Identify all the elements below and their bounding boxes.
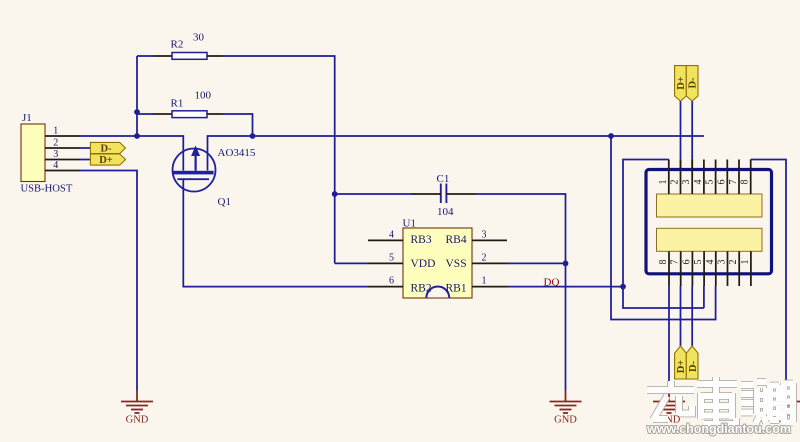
- junction VBUS/J1.1: [134, 133, 140, 139]
- svg-text:3: 3: [681, 180, 692, 185]
- wire J1.1 to VBUS node: [80, 135, 137, 137]
- svg-text:AO3415: AO3415: [218, 147, 256, 159]
- wire drain rail branch x611: [611, 136, 716, 320]
- wire Q1 drain rail to connector pin4 top: [208, 136, 704, 171]
- svg-text:RB3: RB3: [411, 234, 432, 246]
- R1 pin 1: [153, 113, 172, 115]
- resistor R2: [172, 53, 207, 60]
- port D- (left): [90, 142, 125, 154]
- wire bottom pin5 riser: [703, 286, 705, 308]
- svg-text:100: 100: [195, 90, 212, 102]
- svg-text:D+: D+: [99, 155, 113, 166]
- wire J1.3 to D+ port: [80, 159, 90, 161]
- svg-text:D-: D-: [100, 144, 112, 155]
- ground symbol center: [550, 391, 582, 414]
- svg-text:4: 4: [53, 160, 58, 171]
- svg-text:RB2: RB2: [411, 283, 432, 295]
- svg-text:2: 2: [482, 252, 487, 263]
- wire R2 left: [137, 55, 153, 57]
- svg-text:3: 3: [717, 260, 728, 265]
- svg-text:1: 1: [53, 126, 58, 137]
- svg-text:4: 4: [705, 260, 716, 265]
- wire R2 right to VDD column: [223, 56, 335, 263]
- svg-text:8: 8: [658, 260, 669, 265]
- svg-text:2: 2: [670, 180, 681, 185]
- wire bottom flag D-: [691, 286, 693, 346]
- connector top pin numbers: [658, 180, 751, 185]
- connector CON8 thick body: [646, 170, 772, 274]
- R2 pin 1: [153, 55, 172, 57]
- wire VDD pin5: [335, 262, 368, 264]
- U1 pin 6: [368, 286, 403, 288]
- U1 pin 1: [472, 286, 507, 288]
- J1 pin 3: [45, 159, 80, 161]
- svg-text:4: 4: [389, 229, 394, 240]
- junction DQ/x623: [620, 284, 626, 290]
- C1 pin 1: [411, 193, 441, 195]
- junction VSS/C1: [563, 261, 569, 267]
- svg-text:6: 6: [681, 260, 692, 265]
- wire VBUS column x137: [136, 56, 138, 136]
- svg-text:1: 1: [482, 276, 487, 287]
- svg-text:104: 104: [437, 206, 454, 218]
- U1 pin 2: [472, 262, 507, 264]
- svg-text:GND: GND: [126, 415, 149, 426]
- connector bottom pin numbers: [658, 260, 751, 265]
- svg-text:VDD: VDD: [411, 258, 436, 270]
- U1 pin 3: [472, 239, 507, 241]
- wire VBUS rail to Q1 source: [137, 136, 183, 171]
- wire J1.4 to GND column: [80, 171, 137, 391]
- connector bottom pins 8-1: [669, 251, 751, 286]
- svg-text:1: 1: [658, 180, 669, 185]
- svg-text:J1: J1: [22, 112, 32, 124]
- resistor R1: [172, 111, 207, 118]
- connector J1 body: [21, 124, 45, 182]
- svg-text:D+: D+: [676, 76, 687, 90]
- ground symbol bottom-right inner: [653, 391, 685, 414]
- wire bottom flag D+: [680, 286, 682, 346]
- connector key slot lower: [657, 228, 763, 251]
- U1 pin 4: [368, 239, 403, 241]
- wire Q1 gate down to RB2 row: [183, 179, 368, 286]
- port D- (bottom): [686, 346, 699, 379]
- svg-text:USB-HOST: USB-HOST: [21, 184, 73, 195]
- svg-text:RB1: RB1: [446, 283, 467, 295]
- wire top flag D-: [691, 101, 693, 170]
- junction drain/x611: [608, 133, 614, 139]
- C1 pin 2: [446, 193, 476, 195]
- port D+ (top): [675, 66, 687, 101]
- junction VDD/C1: [332, 191, 338, 197]
- svg-text:8: 8: [740, 180, 751, 185]
- svg-text:www.chongdiantou.com: www.chongdiantou.com: [646, 422, 791, 436]
- junction VBUS/R1: [134, 109, 140, 115]
- wire top pin8 to right GND: [751, 160, 786, 391]
- svg-text:5: 5: [693, 260, 704, 265]
- connector key slot upper: [657, 194, 763, 217]
- port D- (top): [686, 66, 698, 101]
- IC U1 body: [403, 228, 472, 298]
- svg-text:30: 30: [193, 32, 205, 44]
- svg-text:3: 3: [482, 229, 487, 240]
- transistor Q1 AO3415 PMOS: [173, 146, 216, 192]
- J1 pin 4: [45, 170, 80, 172]
- J1 pin 1: [45, 135, 80, 137]
- svg-text:R1: R1: [171, 98, 184, 110]
- wire R1 right down to drain rail: [223, 114, 253, 136]
- svg-text:2: 2: [728, 260, 739, 265]
- svg-text:RB4: RB4: [446, 234, 467, 246]
- svg-text:7: 7: [670, 260, 681, 265]
- wire top pin1 branch: [623, 160, 704, 309]
- port D+ (left): [90, 154, 125, 166]
- wire bottom pin8 to GND: [668, 286, 670, 391]
- connector top pins 1-8: [669, 160, 751, 195]
- svg-text:D-: D-: [688, 77, 699, 89]
- svg-text:R2: R2: [171, 39, 184, 51]
- svg-text:U1: U1: [403, 218, 416, 230]
- junction drain/R1: [250, 133, 256, 139]
- ground symbol left: [121, 391, 153, 414]
- svg-text:1: 1: [740, 260, 751, 265]
- U1 pin 5: [368, 262, 403, 264]
- ground symbol bottom-right outer: [770, 391, 800, 414]
- wire C1 left: [335, 193, 411, 195]
- wire R1 left: [137, 113, 153, 115]
- svg-text:C1: C1: [437, 173, 450, 185]
- wire top flag D+: [680, 101, 682, 170]
- wire VSS pin2 to GND column: [507, 262, 566, 264]
- svg-text:D-: D-: [688, 360, 699, 372]
- svg-text:Q1: Q1: [218, 196, 231, 208]
- wire RB1 DQ net: [507, 286, 623, 288]
- wire C1 right to VSS column: [476, 194, 565, 391]
- svg-text:7: 7: [728, 180, 739, 185]
- svg-text:6: 6: [716, 180, 727, 185]
- port D+ (bottom): [675, 346, 688, 379]
- svg-text:D+: D+: [676, 360, 687, 374]
- svg-text:DQ: DQ: [544, 277, 560, 289]
- svg-text:2: 2: [53, 138, 58, 149]
- svg-text:3: 3: [53, 149, 58, 160]
- svg-text:VSS: VSS: [446, 258, 467, 270]
- J1 pin 2: [45, 147, 80, 149]
- svg-text:GND: GND: [554, 415, 577, 426]
- watermark chongdiantou: [646, 377, 793, 436]
- svg-text:4: 4: [693, 180, 704, 185]
- svg-text:6: 6: [389, 276, 394, 287]
- R2 pin 2: [207, 55, 223, 57]
- wire J1.2 to D- port: [80, 147, 90, 149]
- R1 pin 2: [207, 113, 223, 115]
- svg-text:5: 5: [389, 252, 394, 263]
- capacitor C1: [441, 184, 447, 204]
- svg-text:5: 5: [705, 180, 716, 185]
